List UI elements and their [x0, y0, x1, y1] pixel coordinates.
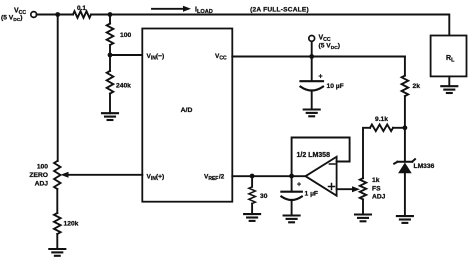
label 30: [260, 193, 268, 200]
svg-text:120k: 120k: [64, 221, 79, 228]
svg-text:1 µF: 1 µF: [305, 191, 319, 198]
ground below 30: [244, 214, 260, 221]
wire VIN(+) to zero-adj wiper with arrow: [61, 172, 143, 178]
svg-text:A/D: A/D: [181, 107, 193, 114]
node junction 1uF/feedback: [289, 174, 294, 179]
svg-text:30: 30: [260, 193, 268, 200]
resistor 0.1: [73, 11, 91, 18]
wire feedback loop: [292, 138, 350, 177]
A/D converter block U1: [142, 29, 232, 202]
node junction 30 ohm tap: [250, 174, 255, 179]
svg-text:240k: 240k: [116, 83, 131, 90]
terminal VCC input (left): [31, 12, 37, 18]
wire node down to LM336: [404, 128, 406, 162]
svg-text:2k: 2k: [413, 83, 421, 90]
wire plus input to FS wiper with arrow: [337, 186, 360, 192]
svg-text:(5 VDC): (5 VDC): [1, 15, 22, 23]
resistor 240k: [107, 71, 114, 94]
node junction VCC bypass: [309, 54, 314, 59]
wire top rail left segment: [37, 14, 73, 16]
svg-text:ILOAD: ILOAD: [195, 7, 213, 15]
label 10 uF: [327, 83, 344, 90]
capacitor C1 10uF: [301, 57, 324, 110]
label 1/2 LM358: [297, 152, 331, 159]
pin label VIN(+): [147, 174, 165, 182]
svg-text:FS: FS: [372, 186, 381, 193]
svg-text:1k: 1k: [372, 177, 380, 184]
svg-text:10 µF: 10 µF: [327, 83, 344, 90]
wire tap to VIN(-) pin: [110, 54, 142, 56]
svg-text:100: 100: [120, 32, 131, 39]
svg-text:+: +: [319, 74, 323, 81]
label 0.1: [77, 5, 86, 12]
potentiometer 1k FS ADJ: [360, 178, 366, 199]
wire 2k to node: [404, 96, 406, 128]
ground below 120k: [49, 249, 65, 256]
ground below 1uF: [284, 216, 300, 223]
label 100 ZERO ADJ: [29, 164, 48, 188]
zener diode LM336: [394, 159, 415, 216]
resistor 2k: [402, 76, 409, 97]
svg-text:LM336: LM336: [414, 163, 435, 170]
resistor 100: [107, 24, 114, 45]
wire down to 30: [251, 176, 253, 187]
label 1 uF: [305, 191, 319, 198]
label VCC (5 VDC) left: [1, 8, 26, 23]
ground below RL: [441, 86, 457, 93]
wire 30 to ground: [251, 204, 253, 215]
label A/D: [181, 107, 193, 114]
wire pot to 120k: [56, 189, 58, 213]
wire top rail right segment: [91, 15, 449, 36]
node junction VIN- tap: [108, 53, 113, 58]
wire 9.1k left end down to 1k pot: [363, 128, 370, 178]
wire 1k pot to ground: [362, 199, 364, 214]
svg-text:+: +: [297, 181, 301, 188]
op-amp U2 1/2 LM358: [306, 157, 337, 196]
ground below 1k pot: [355, 215, 371, 222]
svg-text:ZERO: ZERO: [29, 172, 48, 179]
terminal VCC (right): [309, 36, 315, 57]
wire 240k to ground: [109, 94, 111, 114]
svg-text:9.1k: 9.1k: [375, 116, 388, 123]
label 9.1k: [375, 116, 388, 123]
svg-text:ADJ: ADJ: [372, 194, 386, 201]
wire RL to ground: [448, 76, 450, 86]
label 100: [120, 32, 131, 39]
label + of 1uF: [297, 181, 301, 188]
svg-text:(5 VDC): (5 VDC): [319, 43, 340, 51]
svg-text:ADJ: ADJ: [35, 181, 49, 188]
svg-text:(2A FULL-SCALE): (2A FULL-SCALE): [250, 6, 309, 13]
wire junction to 100 resistor: [109, 15, 111, 24]
op-amp plus sign: [329, 184, 335, 190]
label LM336: [414, 163, 435, 170]
resistor 120k: [54, 213, 61, 234]
node junction after 0.1: [108, 12, 113, 17]
resistor 30: [249, 187, 256, 204]
label 120k: [64, 221, 79, 228]
wire 120k to ground: [56, 234, 58, 249]
label 240k: [116, 83, 131, 90]
svg-text:0.1: 0.1: [77, 5, 86, 12]
ground below 240k: [102, 113, 118, 120]
svg-text:1/2 LM358: 1/2 LM358: [297, 152, 331, 159]
wire left column down to zero-adj pot: [57, 15, 59, 162]
load resistor RL box: [431, 36, 467, 77]
pin label VIN(-): [147, 53, 165, 61]
wire VREF/2 to op-amp output: [232, 175, 306, 177]
node junction 2k/9.1k/LM336: [403, 125, 408, 130]
pin label VCC: [215, 53, 227, 61]
potentiometer 100 ZERO ADJ: [54, 161, 60, 189]
label VCC (5 VDC) right: [319, 35, 340, 51]
pin label VREF/2: [204, 174, 225, 182]
arrow ILOAD: [152, 6, 191, 12]
node junction top-left: [55, 12, 60, 17]
wire down to 2k: [404, 57, 406, 76]
wire node to 9.1k: [393, 127, 405, 129]
wire VCC pin to 2k column: [232, 56, 405, 58]
op-amp minus sign: [329, 163, 335, 165]
wire 100 to 240k: [109, 45, 111, 71]
ground below LM336: [397, 216, 413, 223]
label + of 10uF: [319, 74, 323, 81]
label 1k FS ADJ: [372, 177, 386, 201]
capacitor C2 1uF: [281, 176, 301, 216]
label ILOAD: [195, 7, 213, 15]
label 2k: [413, 83, 421, 90]
resistor 9.1k: [370, 125, 393, 132]
label 2A FULL-SCALE: [250, 6, 309, 13]
label RL: [446, 55, 455, 63]
ground below 10uF: [304, 110, 320, 117]
svg-text:100: 100: [37, 164, 48, 171]
